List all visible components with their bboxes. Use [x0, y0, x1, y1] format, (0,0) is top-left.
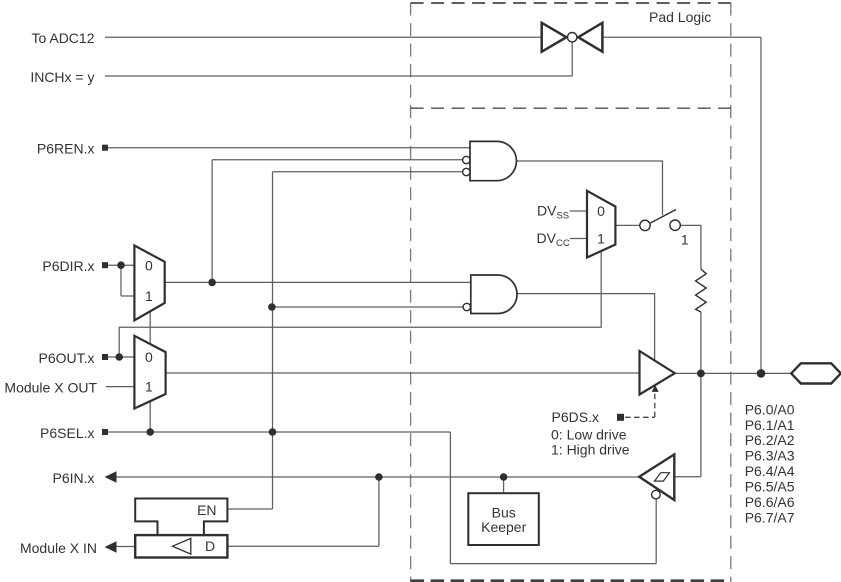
svg-text:Module X OUT: Module X OUT [4, 379, 97, 395]
svg-text:Module X IN: Module X IN [20, 540, 97, 556]
svg-text:P6.2/A2: P6.2/A2 [745, 432, 795, 448]
svg-text:P6.0/A0: P6.0/A0 [745, 401, 795, 417]
svg-text:Pad Logic: Pad Logic [649, 9, 711, 25]
svg-text:Bus: Bus [492, 504, 516, 520]
svg-text:P6IN.x: P6IN.x [52, 470, 94, 486]
svg-text:P6SEL.x: P6SEL.x [40, 425, 94, 441]
svg-text:0: 0 [145, 257, 153, 273]
svg-text:P6.6/A6: P6.6/A6 [745, 494, 795, 510]
svg-text:P6.4/A4: P6.4/A4 [745, 463, 795, 479]
svg-text:P6OUT.x: P6OUT.x [38, 350, 94, 366]
svg-text:D: D [205, 538, 215, 554]
svg-text:1: 1 [145, 288, 153, 304]
svg-text:Keeper: Keeper [481, 519, 526, 535]
svg-text:0: 0 [597, 203, 605, 219]
svg-text:P6DIR.x: P6DIR.x [42, 258, 94, 274]
svg-text:0: Low drive: 0: Low drive [551, 426, 627, 442]
svg-text:EN: EN [197, 502, 216, 518]
svg-text:0: 0 [145, 349, 153, 365]
svg-text:P6.7/A7: P6.7/A7 [745, 510, 795, 526]
svg-text:1: 1 [145, 379, 153, 395]
svg-text:To ADC12: To ADC12 [31, 30, 94, 46]
svg-text:P6.3/A3: P6.3/A3 [745, 448, 795, 464]
svg-text:P6REN.x: P6REN.x [37, 141, 95, 157]
svg-text:P6.1/A1: P6.1/A1 [745, 417, 795, 433]
svg-text:1: 1 [681, 231, 689, 247]
svg-text:1: High drive: 1: High drive [551, 441, 630, 457]
svg-text:P6.5/A5: P6.5/A5 [745, 479, 795, 495]
svg-text:INCHx = y: INCHx = y [30, 69, 94, 85]
svg-text:P6DS.x: P6DS.x [552, 409, 599, 425]
svg-text:1: 1 [597, 231, 605, 247]
